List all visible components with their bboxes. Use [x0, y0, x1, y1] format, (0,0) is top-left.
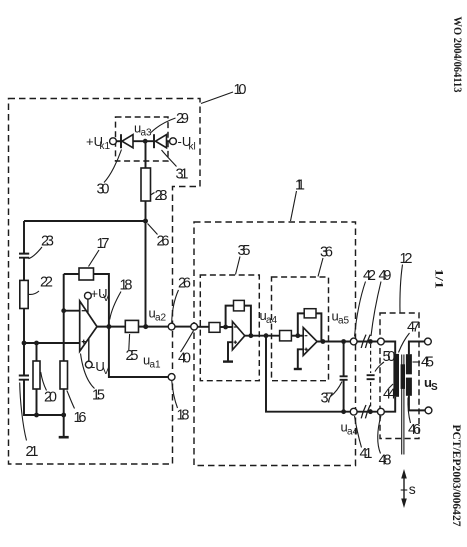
- label 23 with leader: [29, 234, 55, 259]
- svg-text:a2: a2: [155, 313, 167, 324]
- label 17 with leader: [89, 236, 110, 267]
- wire input resistor to opamp 36: [291, 335, 303, 337]
- output label us: [424, 375, 438, 393]
- wire opamp 35 noninverting to ground: [228, 342, 232, 361]
- svg-text:a3: a3: [141, 128, 153, 139]
- svg-text:1/1: 1/1: [432, 269, 444, 289]
- label 11 with leader: [291, 178, 306, 222]
- terminal -Ukl: [170, 134, 196, 153]
- svg-text:23: 23: [41, 234, 54, 250]
- wire opamp 36 output: [317, 341, 350, 343]
- enclosure box 11 dashed outline: [194, 222, 356, 466]
- svg-text:15: 15: [92, 388, 105, 404]
- label 20 with leader: [41, 372, 57, 406]
- terminal +Uk1: [86, 134, 116, 152]
- wire node 26 down to node ua2: [145, 221, 147, 327]
- wire resistor 20 stems: [36, 343, 38, 415]
- input resistor of op-amp 35: [209, 323, 220, 333]
- label 47 with leader: [399, 320, 421, 353]
- wire junction down to capacitor 21: [23, 343, 25, 375]
- label 12 with leader: [400, 251, 413, 313]
- label 48 with leader: [378, 416, 392, 469]
- svg-text:17: 17: [97, 236, 110, 252]
- label 40 with leader: [178, 331, 194, 367]
- wire diode 31 to terminal -Ukl: [167, 140, 170, 142]
- label 30 with leader: [97, 150, 122, 198]
- transformer core 47: [401, 355, 405, 455]
- wire input resistor to opamp 35: [220, 326, 232, 328]
- svg-text:S: S: [431, 382, 438, 393]
- svg-text:48: 48: [379, 453, 392, 469]
- label 18 lower with leader: [172, 381, 190, 424]
- junction dot capacitor 37 bottom: [341, 409, 346, 414]
- wire capacitor 37 stems: [343, 342, 345, 412]
- label 45 with leader: [413, 355, 435, 371]
- label 49 with leader: [371, 268, 392, 336]
- resistor 22: [20, 280, 28, 308]
- terminal -Uv: [85, 339, 109, 377]
- capacitor 50: [367, 375, 375, 379]
- node label ua4: [260, 308, 278, 326]
- wire lower link to terminal 48: [357, 411, 377, 413]
- svg-text:29: 29: [176, 111, 189, 127]
- capacitor 23: [19, 254, 29, 258]
- svg-text:50: 50: [383, 349, 396, 365]
- wire ua4 branch down and right: [266, 336, 350, 412]
- label 18 upper with leader: [110, 278, 133, 320]
- enclosure box 10 dashed outline: [9, 99, 201, 465]
- wire resistor 28 to node 26: [145, 201, 147, 221]
- wire noninverting input row: [24, 342, 80, 344]
- label 36 with leader: [318, 245, 333, 277]
- wire terminal 26 to terminal 40: [175, 326, 191, 328]
- output terminal us top circle: [425, 338, 432, 345]
- sensor box 12 dashed outline: [380, 313, 419, 439]
- transformer secondary winding 45: [406, 354, 412, 374]
- wire diode 30 to node ua3 to diode 31: [133, 140, 154, 142]
- node ua4 junction dot: [264, 333, 269, 338]
- label 16 with leader: [67, 391, 87, 427]
- svg-text:36: 36: [320, 245, 333, 261]
- terminal 48 circle: [378, 408, 385, 415]
- wire left rail to capacitor 23: [23, 221, 25, 253]
- label 50 with leader: [375, 349, 396, 372]
- svg-text:25: 25: [126, 348, 139, 364]
- label 21 with leader: [20, 383, 39, 461]
- svg-text:18: 18: [177, 408, 190, 424]
- svg-text:10: 10: [234, 82, 247, 98]
- label 10 with leader: [201, 82, 247, 104]
- amplifier box 35 dashed outline: [200, 275, 259, 381]
- resistor 16: [60, 361, 68, 389]
- terminal 49 circle: [378, 338, 385, 345]
- svg-text:PCT/EP2003/006427: PCT/EP2003/006427: [450, 425, 462, 527]
- wire opamp 36 noninverting to ground: [298, 349, 303, 368]
- cable 49 dashed line: [370, 344, 372, 410]
- wire upper link terminal 42 to terminal 49: [357, 341, 377, 343]
- svg-text:22: 22: [40, 275, 53, 291]
- label 25 with leader: [126, 334, 139, 364]
- transformer secondary winding 46: [406, 378, 412, 396]
- limiter box 29 dashed outline: [116, 117, 169, 161]
- label 31 with leader: [162, 150, 189, 183]
- wire inverting input: [64, 310, 80, 312]
- label 35 with leader: [236, 243, 251, 275]
- wire resistor 25 to terminal 26: [139, 326, 169, 328]
- svg-text:s: s: [409, 481, 416, 497]
- label 29 with leader: [151, 111, 189, 133]
- junction dot resistor 20 top: [34, 341, 39, 346]
- junction dot resistor 20 bottom rail: [34, 413, 39, 418]
- terminal 42 circle: [350, 338, 357, 345]
- wire capacitor 23 to resistor 22: [23, 258, 25, 281]
- node label ua3: [134, 121, 152, 139]
- feedback resistor of op-amp 36: [304, 309, 316, 318]
- svg-text:16: 16: [74, 410, 87, 426]
- svg-text:kl: kl: [189, 142, 196, 153]
- svg-text:WO 2004/064113: WO 2004/064113: [451, 17, 463, 93]
- node label ua2: [149, 306, 167, 324]
- svg-text:40: 40: [178, 351, 191, 367]
- junction dot cable capacitance bottom: [368, 409, 373, 414]
- svg-text:12: 12: [400, 251, 413, 267]
- resistor 25: [125, 320, 138, 332]
- terminal 40 circle: [191, 323, 198, 330]
- amplifier box 36 dashed outline: [272, 277, 329, 381]
- wire secondary bottom to output terminal: [409, 396, 425, 411]
- junction dot op-amp 36 output: [321, 339, 326, 344]
- label 22 with leader: [29, 275, 54, 295]
- svg-text:21: 21: [26, 444, 39, 460]
- junction dot left rail row: [22, 341, 27, 346]
- svg-text:18: 18: [120, 278, 133, 294]
- op-amp 15: [80, 301, 97, 351]
- svg-text:41: 41: [360, 446, 373, 462]
- diode 31: [154, 134, 167, 148]
- input resistor of op-amp 36: [280, 331, 292, 341]
- label 44 with leader: [383, 384, 396, 403]
- wire node ua3 down to resistor 28: [145, 141, 147, 168]
- resistor 17: [79, 268, 94, 280]
- terminal 41 circle: [350, 408, 357, 415]
- junction dot op-amp 35 output: [249, 333, 254, 338]
- svg-text:a5: a5: [338, 316, 350, 327]
- svg-text:V: V: [103, 366, 110, 377]
- wire ua1 branch to terminal 18: [109, 327, 168, 377]
- node 26 junction dot: [143, 219, 148, 224]
- svg-text:30: 30: [97, 182, 110, 198]
- svg-text:37: 37: [321, 391, 334, 407]
- terminal 18 circle: [168, 374, 175, 381]
- svg-text:a4: a4: [266, 315, 278, 326]
- node label ua5: [332, 309, 350, 327]
- capacitor 37: [340, 376, 348, 380]
- label 46 with leader: [408, 398, 421, 439]
- label 37 with leader: [321, 382, 343, 407]
- junction dot capacitor 37 top: [341, 339, 346, 344]
- junction dot resistor 16 bottom rail: [61, 413, 66, 418]
- wire node 26 horizontal run: [24, 220, 146, 222]
- wire inverting rail: [63, 274, 65, 361]
- displacement arrow s: [401, 469, 416, 508]
- label 15 with leader: [81, 354, 106, 404]
- transformer primary winding 44: [393, 354, 399, 397]
- wire feedback loop opamp 36: [298, 313, 322, 341]
- output terminal us bottom circle: [425, 407, 432, 414]
- resistor 28: [141, 168, 151, 201]
- wire terminal 49 to primary winding top: [384, 342, 395, 354]
- junction dot op-amp 15 output: [106, 324, 111, 329]
- wire resistor 16 to ground: [63, 389, 65, 436]
- diode 30: [121, 134, 133, 148]
- ground of op-amp 36: [294, 368, 302, 370]
- wire terminal +Uk1 to diode 30: [116, 140, 121, 142]
- junction dot before op-amp 35: [223, 325, 228, 330]
- junction dot before op-amp 36: [295, 333, 300, 338]
- interruption marks upper wire: [361, 335, 370, 348]
- svg-text:26: 26: [157, 234, 170, 250]
- svg-text:k1: k1: [100, 141, 111, 152]
- terminal 26 circle: [168, 323, 175, 330]
- node ua3 junction dot: [143, 139, 148, 144]
- wire opamp 15 output: [97, 326, 125, 328]
- wire resistor 22 to junction: [23, 309, 25, 344]
- svg-text:V: V: [103, 293, 110, 304]
- label 42 with leader: [355, 268, 377, 337]
- label 28 with leader: [151, 188, 168, 204]
- wire terminal 40 into box 11: [198, 326, 210, 328]
- node label ua1: [143, 353, 161, 371]
- svg-text:28: 28: [155, 188, 168, 204]
- node ua2 junction dot: [143, 324, 148, 329]
- resistor 20: [33, 361, 40, 389]
- label 26 terminal with leader: [172, 276, 191, 323]
- op-amp 36: [303, 328, 317, 356]
- terminal +Uv: [85, 286, 110, 313]
- ground below resistor 16: [59, 436, 69, 439]
- svg-text:20: 20: [44, 390, 57, 406]
- svg-text:44: 44: [383, 387, 396, 403]
- svg-text:26: 26: [178, 276, 191, 292]
- svg-text:46: 46: [408, 422, 421, 438]
- junction dot inverting input: [61, 308, 66, 313]
- feedback resistor of op-amp 35: [234, 300, 245, 311]
- capacitor 21: [19, 376, 29, 380]
- label 41 with leader: [355, 416, 373, 462]
- ground of op-amp 35: [223, 360, 233, 362]
- wire terminal 48 to primary winding bottom: [384, 397, 395, 412]
- op-amp 35: [232, 322, 244, 350]
- wire feedback loop opamp 35: [226, 306, 251, 336]
- wire secondary top to output terminal: [409, 342, 425, 355]
- junction dot cable capacitance top: [368, 339, 373, 344]
- wire opamp 35 output: [245, 335, 280, 337]
- interruption marks lower wire: [361, 405, 370, 418]
- svg-text:31: 31: [176, 167, 189, 183]
- wire feedback via resistor 17: [64, 274, 109, 327]
- node label ua4 lower: [341, 420, 359, 438]
- svg-text:a1: a1: [150, 360, 162, 371]
- wire capacitor 21 to bottom rail: [24, 380, 64, 415]
- label 26 node with leader: [148, 224, 170, 250]
- svg-text:45: 45: [421, 355, 434, 371]
